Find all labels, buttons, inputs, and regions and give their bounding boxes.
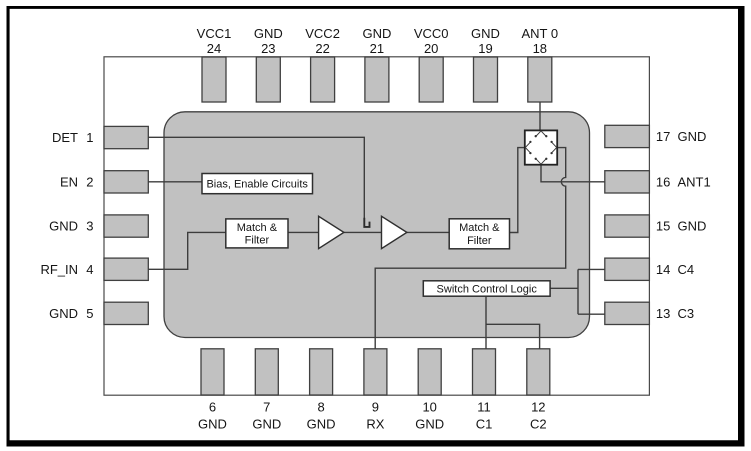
wire switch control logic to right column — [550, 287, 578, 289]
svg-text:GND: GND — [49, 306, 78, 321]
svg-text:GND: GND — [307, 417, 336, 432]
svg-text:VCC1: VCC1 — [197, 26, 232, 41]
wire to pin14 C4 — [578, 268, 605, 270]
switch S1 dots — [529, 135, 552, 160]
svg-text:3: 3 — [86, 219, 93, 234]
svg-text:14: 14 — [656, 262, 670, 277]
svg-text:DET: DET — [52, 130, 78, 145]
svg-text:GND: GND — [678, 129, 707, 144]
wire EN pin2 to bias box — [148, 181, 202, 183]
wire switch to pin16 ANT1 — [541, 165, 605, 182]
pin 19 pad (GND) — [474, 57, 498, 102]
pin 20 pad (VCC0) — [419, 57, 443, 102]
svg-text:13: 13 — [656, 306, 670, 321]
wire match filter 1 to amp1 — [288, 231, 319, 233]
pin 7 pad (GND) — [255, 349, 278, 395]
pin 5 pad (GND) — [104, 302, 148, 324]
svg-text:ANT1: ANT1 — [678, 174, 711, 189]
pin 14 pad (C4) — [605, 258, 650, 280]
svg-text:C4: C4 — [678, 262, 695, 277]
svg-text:ANT 0: ANT 0 — [521, 26, 558, 41]
pin 9 pad (RX) — [364, 349, 387, 395]
amp U1 — [319, 216, 344, 248]
svg-text:17: 17 — [656, 129, 670, 144]
pin 11 pad (C1) — [473, 349, 496, 395]
svg-text:4: 4 — [86, 262, 93, 277]
svg-text:5: 5 — [86, 306, 93, 321]
die (internal block) — [164, 112, 590, 338]
wire to pin13 C3 — [578, 313, 605, 315]
svg-text:6: 6 — [209, 400, 216, 415]
pin 6 pad (GND) — [201, 349, 224, 395]
pin 4 pad (RF_IN) — [104, 258, 148, 280]
pin 23 pad (GND) — [256, 57, 280, 102]
svg-text:22: 22 — [315, 41, 329, 56]
wire amp2 to match filter 2 — [407, 231, 449, 233]
svg-text:11: 11 — [477, 400, 491, 415]
match filter 2 box — [449, 219, 509, 249]
wire pin18 ANT0 to switch — [539, 102, 541, 131]
pin 21 pad (GND) — [365, 57, 389, 102]
svg-text:9: 9 — [372, 400, 379, 415]
svg-text:C2: C2 — [530, 417, 547, 432]
svg-text:VCC2: VCC2 — [305, 26, 340, 41]
pin 10 pad (GND) — [418, 349, 441, 395]
match filter 1 box — [226, 219, 288, 248]
wire match filter 2 to switch — [510, 148, 525, 233]
svg-text:RX: RX — [366, 417, 384, 432]
svg-text:7: 7 — [263, 400, 270, 415]
wire branch to pin12 C2 — [486, 324, 540, 349]
svg-text:15: 15 — [656, 219, 670, 234]
pin 17 pad (GND) — [605, 125, 650, 147]
pin 24 pad (VCC1) — [202, 57, 226, 102]
svg-text:16: 16 — [656, 174, 670, 189]
svg-text:GND: GND — [254, 26, 283, 41]
pin 8 pad (GND) — [310, 349, 333, 395]
svg-text:Bias, Enable Circuits: Bias, Enable Circuits — [206, 179, 308, 191]
pin 16 pad (ANT1) — [605, 171, 650, 193]
pin 18 pad (ANT 0) — [528, 57, 552, 102]
pin 12 pad (C2) — [527, 349, 550, 395]
pin 15 pad (GND) — [605, 215, 650, 237]
bias enable circuits box — [202, 174, 313, 194]
wire DET pin1 — [148, 137, 364, 218]
svg-text:Filter: Filter — [467, 235, 492, 247]
svg-text:24: 24 — [207, 41, 221, 56]
svg-text:GND: GND — [678, 219, 707, 234]
pin 1 pad (DET) — [104, 126, 148, 148]
svg-text:12: 12 — [531, 400, 545, 415]
pin 13 pad (C3) — [605, 302, 650, 324]
svg-text:19: 19 — [478, 41, 492, 56]
svg-text:1: 1 — [86, 130, 93, 145]
svg-text:EN: EN — [60, 174, 78, 189]
svg-text:20: 20 — [424, 41, 438, 56]
wire RF_IN pin4 to match filter 1 — [148, 232, 226, 269]
svg-text:GND: GND — [49, 219, 78, 234]
svg-text:18: 18 — [533, 41, 547, 56]
wire switch to pin9 RX with hop over ANT1 wire — [375, 148, 566, 349]
switch S1 box — [525, 130, 557, 164]
svg-text:C3: C3 — [678, 306, 695, 321]
svg-text:GND: GND — [471, 26, 500, 41]
switch control logic box — [423, 281, 550, 296]
amp U2 — [382, 216, 407, 248]
svg-text:23: 23 — [261, 41, 275, 56]
svg-text:GND: GND — [415, 417, 444, 432]
wire switch control logic to pin11 C1 — [485, 296, 487, 349]
svg-text:2: 2 — [86, 174, 93, 189]
svg-text:RF_IN: RF_IN — [40, 262, 78, 277]
wire amp1 to amp2 — [344, 231, 382, 233]
svg-text:10: 10 — [422, 400, 436, 415]
svg-text:C1: C1 — [476, 417, 493, 432]
svg-text:Match &: Match & — [237, 222, 278, 234]
package outline — [104, 57, 649, 395]
svg-text:21: 21 — [370, 41, 384, 56]
pin 22 pad (VCC2) — [311, 57, 335, 102]
svg-text:Switch Control Logic: Switch Control Logic — [437, 284, 538, 296]
svg-text:Filter: Filter — [245, 235, 270, 247]
svg-text:8: 8 — [317, 400, 324, 415]
svg-text:GND: GND — [362, 26, 391, 41]
coupler tap hook — [364, 218, 369, 227]
wire column vertical pins 13-14 — [577, 269, 579, 314]
svg-text:VCC0: VCC0 — [414, 26, 449, 41]
svg-text:GND: GND — [252, 417, 281, 432]
switch S1 cross-point segments — [525, 131, 556, 164]
svg-text:GND: GND — [198, 417, 227, 432]
svg-text:Match &: Match & — [459, 222, 500, 234]
pin 3 pad (GND) — [104, 215, 148, 237]
pin 2 pad (EN) — [104, 171, 148, 193]
